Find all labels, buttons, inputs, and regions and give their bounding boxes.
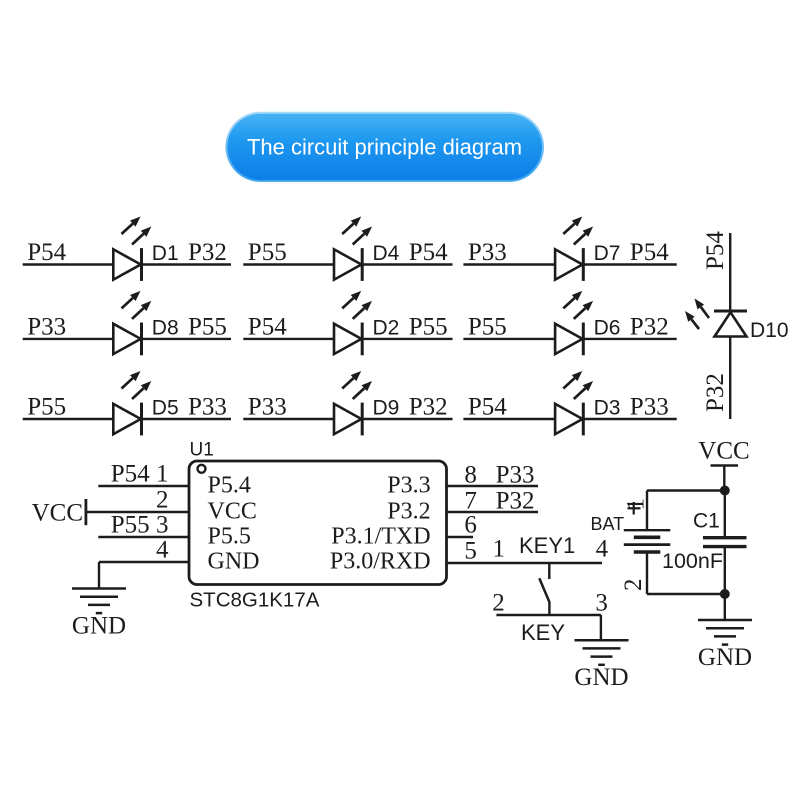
- svg-text:D3: D3: [594, 397, 621, 420]
- svg-text:1: 1: [493, 536, 506, 563]
- U1 pin name VCC: [208, 499, 257, 525]
- svg-text:BAT: BAT: [591, 514, 625, 534]
- node P55: [188, 313, 227, 340]
- label D7: [594, 242, 621, 265]
- svg-text:D7: D7: [594, 242, 621, 265]
- ground symbol (KEY): [574, 640, 628, 691]
- capacitor C1: [703, 538, 747, 547]
- pin number 1: [156, 461, 169, 488]
- svg-text:P54: P54: [468, 394, 507, 421]
- svg-text:1: 1: [156, 461, 169, 488]
- wire LED D4 to net P54: [362, 263, 452, 265]
- svg-text:3: 3: [156, 512, 169, 539]
- title banner: [225, 112, 544, 182]
- node P32 (pin 7): [496, 488, 535, 515]
- pin number 2: [156, 487, 169, 514]
- wire GND node to ground: [724, 594, 726, 620]
- wire net P55 to LED D5: [23, 418, 142, 420]
- svg-text:D5: D5: [152, 397, 179, 420]
- pin number 3: [156, 512, 169, 539]
- svg-text:D2: D2: [373, 316, 400, 339]
- U1 pin name P3.0/RXD: [330, 549, 431, 575]
- label D9: [373, 397, 400, 420]
- label D2: [373, 316, 400, 339]
- svg-text:GND: GND: [574, 664, 628, 691]
- svg-text:The circuit principle diagram: The circuit principle diagram: [247, 135, 522, 160]
- svg-text:P54: P54: [27, 239, 66, 266]
- part value KEY: [521, 620, 565, 645]
- wire switch pin 3 to ground: [600, 615, 602, 640]
- pin number 6: [464, 512, 477, 539]
- node P55: [27, 394, 66, 421]
- svg-text:P32: P32: [630, 313, 669, 340]
- svg-text:P3.0/RXD: P3.0/RXD: [330, 549, 431, 575]
- switch bottom wire: [496, 614, 601, 616]
- node P33: [248, 394, 287, 421]
- svg-text:D4: D4: [373, 242, 400, 265]
- wire net P55 to LED D6: [463, 338, 583, 340]
- node P33: [468, 239, 507, 266]
- svg-text:P5.5: P5.5: [208, 524, 251, 550]
- pin number 4: [156, 537, 169, 564]
- battery pin number 2 (rotated): [620, 579, 647, 592]
- LED D7: [555, 217, 593, 281]
- label D6: [594, 316, 621, 339]
- node P54: [468, 394, 507, 421]
- node P54: [630, 239, 669, 266]
- svg-text:KEY1: KEY1: [519, 533, 575, 558]
- LED D5: [113, 371, 151, 435]
- node P55: [468, 313, 507, 340]
- U1 pin 7 wire (net P32): [447, 511, 539, 513]
- U1 pin name P3.2: [387, 499, 430, 525]
- capacitor C1 top lead: [724, 491, 726, 537]
- U1 pin name P5.5: [208, 524, 251, 550]
- wire LED D10 to net P32: [729, 337, 731, 420]
- svg-text:100nF: 100nF: [662, 549, 723, 573]
- U1 pin name P3.1/TXD: [331, 524, 430, 550]
- node P55: [409, 313, 448, 340]
- IC U1 STC8G1K17A body: [189, 461, 447, 585]
- designator C1: [693, 510, 720, 533]
- battery polarity + marker: [628, 502, 641, 515]
- wire LED D2 to net P55: [362, 338, 452, 340]
- svg-text:GND: GND: [698, 644, 752, 671]
- svg-text:7: 7: [464, 488, 477, 515]
- wire LED D9 to net P32: [362, 418, 452, 420]
- svg-text:P32: P32: [496, 488, 535, 515]
- U1 pin 3 wire (net P55): [98, 536, 189, 538]
- label D3: [594, 397, 621, 420]
- svg-text:P54: P54: [111, 461, 150, 488]
- LED D6: [555, 291, 593, 355]
- svg-text:2: 2: [492, 590, 505, 617]
- svg-text:3: 3: [595, 590, 608, 617]
- ground symbol (U1 pin 4): [72, 589, 126, 640]
- LED D2: [334, 291, 372, 355]
- svg-text:KEY: KEY: [521, 620, 565, 645]
- U1 pin name P5.4: [208, 473, 251, 499]
- designator U1: [190, 440, 214, 461]
- svg-text:STC8G1K17A: STC8G1K17A: [190, 589, 320, 612]
- svg-text:2: 2: [620, 579, 647, 592]
- VCC power port (left): [32, 499, 86, 527]
- wire net P54 to LED D1: [23, 263, 142, 265]
- label D10: [750, 319, 789, 342]
- svg-text:P32: P32: [702, 373, 729, 412]
- svg-text:P33: P33: [248, 394, 287, 421]
- U1 pin 4 wire (net GND): [99, 562, 189, 589]
- svg-text:6: 6: [464, 512, 477, 539]
- svg-text:D1: D1: [152, 242, 179, 265]
- svg-text:P5.4: P5.4: [208, 473, 251, 499]
- switch pin number 3: [595, 590, 608, 617]
- svg-text:D6: D6: [594, 316, 621, 339]
- battery pin number 1 (rotated): [623, 498, 650, 511]
- svg-text:P55: P55: [409, 313, 448, 340]
- node P32 (vertical): [702, 373, 729, 412]
- svg-text:GND: GND: [208, 549, 260, 575]
- node P32: [409, 394, 448, 421]
- svg-text:P33: P33: [188, 394, 227, 421]
- svg-text:2: 2: [156, 487, 169, 514]
- svg-text:U1: U1: [190, 440, 214, 461]
- node P32: [630, 313, 669, 340]
- node P54 (vertical): [702, 231, 729, 270]
- label D1: [152, 242, 179, 265]
- wire VCC node to battery: [647, 489, 725, 491]
- svg-text:8: 8: [464, 462, 477, 489]
- battery BAT bottom lead: [646, 552, 648, 594]
- switch KEY1 (SPST lever): [539, 563, 549, 615]
- wire LED D6 to net P32: [583, 338, 676, 340]
- svg-text:D9: D9: [373, 397, 400, 420]
- svg-text:P54: P54: [409, 239, 448, 266]
- svg-text:P3.2: P3.2: [387, 499, 430, 525]
- LED D3: [555, 371, 593, 435]
- node P33: [630, 394, 669, 421]
- svg-text:GND: GND: [72, 613, 126, 640]
- switch pin number 2: [492, 590, 505, 617]
- svg-text:P32: P32: [188, 239, 227, 266]
- wire LED D3 to net P33: [583, 418, 676, 420]
- LED D1: [113, 217, 151, 281]
- wire battery to GND node: [647, 593, 725, 595]
- battery BAT top lead: [646, 491, 648, 530]
- U1 pin 5 wire to switch KEY1: [447, 562, 603, 564]
- wire net P54 to LED D3: [463, 418, 583, 420]
- node P33 (pin 8): [496, 462, 535, 489]
- ground symbol (C1/BAT): [698, 620, 752, 671]
- pin number 7: [464, 488, 477, 515]
- battery BAT: [624, 530, 671, 552]
- switch pin number 4: [596, 536, 609, 563]
- part value STC8G1K17A: [190, 589, 320, 612]
- pin number 8: [464, 462, 477, 489]
- label D4: [373, 242, 400, 265]
- wire net P55 to LED D4: [243, 263, 362, 265]
- svg-text:4: 4: [596, 536, 609, 563]
- node P54 (pin 1): [111, 461, 150, 488]
- node P54: [248, 313, 287, 340]
- svg-text:VCC: VCC: [208, 499, 257, 525]
- svg-text:P33: P33: [630, 394, 669, 421]
- svg-text:D10: D10: [750, 319, 789, 342]
- svg-text:VCC: VCC: [32, 500, 83, 527]
- svg-text:P33: P33: [496, 462, 535, 489]
- wire net P33 to LED D8: [23, 338, 142, 340]
- svg-text:P54: P54: [248, 313, 287, 340]
- svg-text:5: 5: [464, 538, 477, 565]
- wire net P54 to LED D2: [243, 338, 362, 340]
- svg-text:4: 4: [156, 537, 169, 564]
- svg-text:P3.3: P3.3: [387, 473, 430, 499]
- svg-text:P33: P33: [27, 313, 66, 340]
- LED D9: [334, 371, 372, 435]
- U1 pin 2 wire (net VCC): [86, 511, 189, 513]
- svg-text:P55: P55: [248, 239, 287, 266]
- LED D4: [334, 217, 372, 281]
- designator BAT: [591, 514, 625, 534]
- U1 pin name GND: [208, 549, 260, 575]
- node P32: [188, 239, 227, 266]
- wire LED D1 to net P32: [142, 263, 232, 265]
- wire LED D7 to net P54: [583, 263, 676, 265]
- junction dot (VCC node): [720, 486, 730, 496]
- svg-text:P32: P32: [409, 394, 448, 421]
- svg-text:P55: P55: [188, 313, 227, 340]
- pin number 5: [464, 538, 477, 565]
- capacitor C1 bottom lead: [724, 548, 726, 594]
- node P33: [27, 313, 66, 340]
- wire LED D5 to net P33: [142, 418, 232, 420]
- wire LED D8 to net P55: [142, 338, 232, 340]
- svg-text:P3.1/TXD: P3.1/TXD: [331, 524, 430, 550]
- designator KEY1: [519, 533, 575, 558]
- value 100nF: [662, 549, 723, 573]
- switch pin number 1: [493, 536, 506, 563]
- svg-text:VCC: VCC: [698, 438, 749, 465]
- svg-text:P55: P55: [468, 313, 507, 340]
- LED D8: [113, 291, 151, 355]
- VCC power port (top right): [698, 438, 749, 491]
- svg-text:P33: P33: [468, 239, 507, 266]
- node P33: [188, 394, 227, 421]
- wire net P33 to LED D9: [243, 418, 362, 420]
- svg-text:P55: P55: [27, 394, 66, 421]
- U1 pin name P3.3: [387, 473, 430, 499]
- wire net P54 to LED D10: [729, 233, 731, 311]
- label D5: [152, 397, 179, 420]
- node P54: [27, 239, 66, 266]
- node P54: [409, 239, 448, 266]
- U1 pin 8 wire (net P33): [447, 485, 539, 487]
- junction dot (GND node): [720, 589, 730, 599]
- node P55 (pin 3): [111, 512, 150, 539]
- U1 pin 6 wire stub: [447, 536, 474, 538]
- wire net P33 to LED D7: [463, 263, 583, 265]
- label D8: [152, 316, 179, 339]
- svg-text:P54: P54: [702, 231, 729, 270]
- U1 pin 1 wire (net P54): [98, 485, 189, 487]
- svg-text:D8: D8: [152, 316, 179, 339]
- LED D10: [685, 299, 747, 337]
- svg-text:C1: C1: [693, 510, 720, 533]
- svg-text:P54: P54: [630, 239, 669, 266]
- svg-text:P55: P55: [111, 512, 150, 539]
- node P55: [248, 239, 287, 266]
